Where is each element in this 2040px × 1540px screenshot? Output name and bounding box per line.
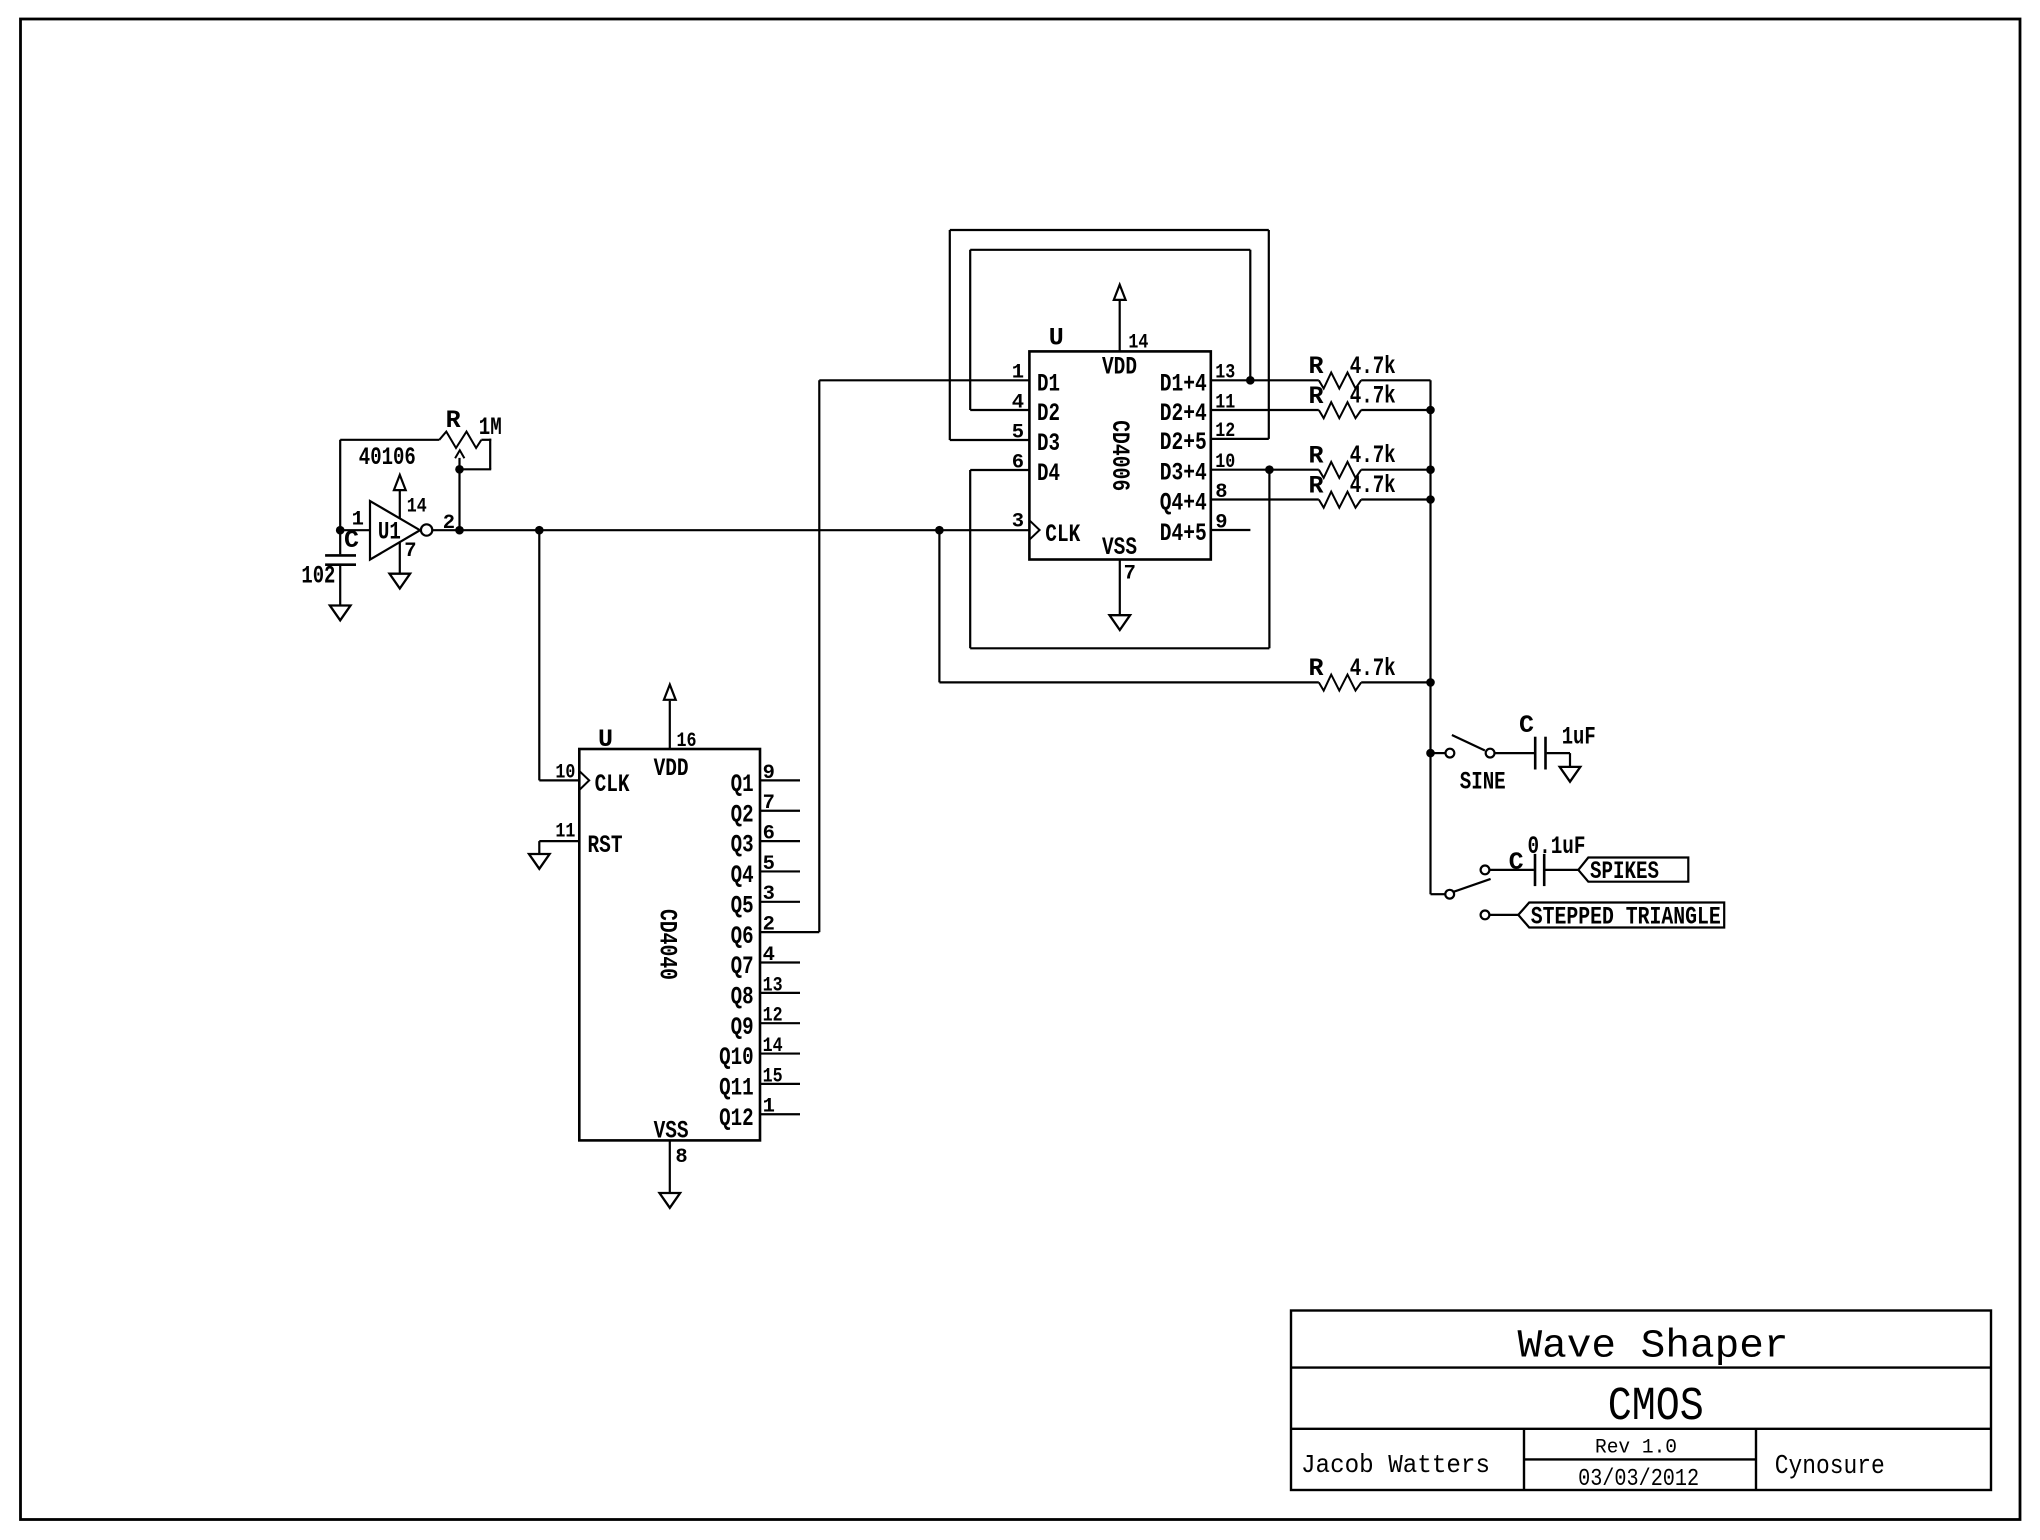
svg-text:8: 8 [675, 1146, 687, 1169]
CD4006 CLK wedge [1029, 520, 1039, 539]
ground at VSS of CD4006 [1110, 615, 1131, 630]
capacitor C 102 bottom lead [339, 566, 341, 606]
svg-text:Wave Shaper: Wave Shaper [1518, 1323, 1789, 1368]
svg-text:Jacob Watters: Jacob Watters [1301, 1450, 1490, 1480]
ground below cap 1uF [1560, 767, 1581, 782]
resistor R 4.7k body [1319, 492, 1361, 508]
ground at VSS of CD4040 [660, 1193, 681, 1208]
wire pin1 stub into U1 [340, 529, 370, 531]
resistor R 4.7k body [1319, 373, 1361, 389]
svg-text:03/03/2012: 03/03/2012 [1578, 1466, 1699, 1493]
svg-text:3: 3 [763, 883, 775, 906]
wire row left segment [1211, 409, 1319, 411]
wire SINE switch to cap C 1uF [1495, 752, 1535, 754]
svg-text:2: 2 [763, 914, 775, 937]
svg-text:Q3: Q3 [731, 831, 754, 860]
svg-text:R: R [1309, 442, 1324, 471]
wire cap 0.1uF to SPIKES flag [1545, 869, 1578, 871]
svg-text:4.7k: 4.7k [1350, 654, 1396, 683]
switch output upper contact circle [1481, 866, 1490, 875]
svg-text:CD4040: CD4040 [653, 909, 682, 980]
wire bottom resistor row left segment [939, 681, 1318, 683]
svg-text:D3: D3 [1037, 429, 1060, 458]
svg-text:D2+5: D2+5 [1160, 428, 1207, 457]
resistor R 4.7k body [1319, 462, 1361, 478]
svg-text:U: U [1049, 324, 1064, 353]
svg-text:SPIKES: SPIKES [1590, 857, 1659, 886]
wire feedback top horizontal [340, 439, 439, 441]
wire Q2 pin stub [760, 810, 800, 812]
wire Q6 pin stub [760, 931, 819, 933]
svg-text:14: 14 [763, 1035, 783, 1058]
wire Q10 pin stub [760, 1052, 800, 1054]
svg-text:R: R [1309, 352, 1324, 381]
svg-text:C: C [344, 526, 359, 555]
svg-text:102: 102 [301, 562, 335, 591]
power arrow VDD pin16 of CD4040 [669, 701, 671, 749]
wire pot lower return to wiper [460, 468, 492, 470]
title block rev date divider [1524, 1458, 1756, 1460]
svg-text:10: 10 [555, 761, 575, 784]
svg-text:Q11: Q11 [719, 1074, 754, 1103]
node junction dot inner loop at D1+4 [1246, 376, 1255, 385]
capacitor C 1uF plates [1534, 737, 1537, 770]
op-amp U1 inverter triangle [370, 501, 420, 560]
ground pin7 of U1 [399, 542, 401, 574]
wire row right segment to rail [1361, 379, 1430, 381]
wire RST stub [539, 840, 579, 842]
net flag STEPPED TRIANGLE outline [1518, 903, 1724, 928]
wire Q4 pin stub [760, 870, 800, 872]
svg-text:Q1: Q1 [731, 770, 754, 799]
power arrow VDD pin14 of U1 [399, 490, 401, 519]
switch output pivot contact circle [1445, 890, 1454, 899]
svg-text:1uF: 1uF [1562, 722, 1596, 751]
svg-text:D2+4: D2+4 [1160, 399, 1207, 428]
wire D3 stub [950, 439, 1030, 441]
wire clock branch vertical down to CD4040 CLK [538, 530, 540, 780]
wire bottom row right segment to rail [1361, 681, 1430, 683]
wire D2+5 row stub to outer loop [1211, 438, 1269, 440]
wire Q9 pin stub [760, 1022, 800, 1024]
wire row right segment to rail [1361, 498, 1430, 500]
svg-text:CLK: CLK [1045, 520, 1080, 549]
wire Q12 pin stub [760, 1113, 800, 1115]
resistor R 1M body [439, 432, 481, 448]
svg-text:Q5: Q5 [731, 891, 754, 920]
wire Q3 pin stub [760, 840, 800, 842]
wire rail bottom corner to output switch pivot [1431, 893, 1446, 895]
svg-text:7: 7 [763, 792, 775, 815]
title block outer box [1291, 1311, 1991, 1491]
svg-text:C: C [1519, 711, 1534, 740]
svg-text:1: 1 [1012, 362, 1024, 385]
svg-text:7: 7 [1124, 563, 1136, 586]
switch output lower contact circle [1481, 911, 1490, 920]
title block vertical divider left [1523, 1429, 1525, 1490]
wire lower contact to STEPPED TRIANGLE flag [1490, 914, 1519, 916]
wire Q1 pin stub [760, 779, 800, 781]
wire row left segment [1211, 379, 1319, 381]
wire outer loop left vertical D3 to top [949, 230, 951, 440]
switch output blade [1454, 879, 1490, 892]
svg-text:VSS: VSS [1102, 533, 1137, 562]
svg-text:Q4: Q4 [731, 861, 754, 890]
wire main clock horizontal from U1 output to CD4006 CLK [432, 529, 1029, 531]
svg-text:14: 14 [1128, 332, 1148, 355]
wire Q7 pin stub [760, 961, 800, 963]
U1 output bubble [421, 524, 432, 535]
wire RST down to ground [538, 841, 540, 854]
svg-text:Q7: Q7 [731, 952, 754, 981]
svg-text:R: R [1309, 471, 1324, 500]
capacitor C 0.1uF plates [1534, 854, 1537, 886]
svg-text:0.1uF: 0.1uF [1528, 832, 1586, 861]
capacitor C 102 plates [325, 554, 356, 557]
svg-text:5: 5 [1012, 421, 1024, 444]
svg-text:4: 4 [1012, 391, 1024, 414]
wire row left segment [1211, 498, 1319, 500]
svg-text:6: 6 [763, 823, 775, 846]
node junction dot SINE tap [1426, 749, 1435, 758]
svg-text:40106: 40106 [359, 443, 416, 472]
node junction dot rail row4 [1426, 465, 1435, 474]
title block divider under subtitle [1291, 1428, 1991, 1430]
wire outer loop right vertical to D2+5 row [1268, 230, 1270, 439]
svg-text:6: 6 [1012, 451, 1024, 474]
svg-text:U1: U1 [378, 518, 401, 547]
node junction dot D4 loop at D3+4 [1265, 465, 1274, 474]
wire D4 stub [970, 469, 1029, 471]
svg-text:11: 11 [555, 821, 575, 844]
node junction dot to CD4040 clock branch [535, 526, 544, 535]
wire inner loop top horizontal [970, 249, 1250, 251]
wire row right segment to rail [1361, 409, 1430, 411]
svg-text:VDD: VDD [1102, 353, 1137, 382]
svg-text:3: 3 [1012, 511, 1024, 534]
wire D4 loop right vertical up to D3+4 row [1268, 470, 1270, 649]
node junction dot rail row2 [1426, 406, 1435, 415]
resistor R 4.7k bottom body [1319, 675, 1361, 691]
svg-text:U: U [598, 725, 613, 754]
wire D4 loop left vertical down [969, 470, 971, 648]
svg-text:D2: D2 [1037, 399, 1060, 428]
svg-text:D1: D1 [1037, 369, 1060, 398]
svg-text:D3+4: D3+4 [1160, 459, 1207, 488]
capacitor C 102 top lead [339, 530, 341, 554]
svg-text:Rev 1.0: Rev 1.0 [1595, 1437, 1677, 1460]
node output junction dot at wiper column [455, 526, 464, 535]
svg-text:RST: RST [588, 831, 623, 860]
title block divider under title [1291, 1366, 1991, 1368]
wire D2 stub [970, 409, 1029, 411]
wire rail to SINE switch pivot [1431, 752, 1446, 754]
wire D4+5 pin9 stub [1211, 529, 1251, 531]
wire wiper down to output node [458, 469, 460, 530]
svg-text:4.7k: 4.7k [1350, 352, 1396, 381]
svg-text:CD4006: CD4006 [1105, 420, 1134, 491]
wire upper contact to cap C 0.1uF [1490, 869, 1534, 871]
svg-text:CLK: CLK [595, 770, 630, 799]
svg-text:12: 12 [763, 1005, 783, 1028]
svg-text:15: 15 [763, 1065, 783, 1088]
svg-text:C: C [1509, 848, 1524, 877]
svg-text:1M: 1M [479, 413, 502, 442]
svg-text:D4+5: D4+5 [1160, 519, 1207, 548]
power arrow VDD pin14 of CD4006 [1119, 300, 1121, 352]
svg-text:Q9: Q9 [731, 1013, 754, 1042]
ground below cap 102 [330, 606, 351, 621]
wire summing rail vertical [1429, 380, 1431, 894]
wire row right segment to rail [1361, 469, 1430, 471]
svg-text:9: 9 [763, 762, 775, 785]
IC U CD4006 box [1029, 351, 1210, 559]
svg-text:5: 5 [763, 853, 775, 876]
svg-text:Q4+4: Q4+4 [1160, 489, 1207, 518]
node junction dot rail row5 [1426, 495, 1435, 504]
wire VSS pin8 down [669, 1140, 671, 1193]
wire cap 1uF to ground corner [1547, 752, 1570, 754]
svg-text:Q6: Q6 [731, 922, 754, 951]
svg-text:Cynosure: Cynosure [1775, 1452, 1885, 1482]
switch SINE blade [1452, 735, 1485, 751]
net flag SPIKES outline [1578, 858, 1688, 882]
wire row left segment [1211, 469, 1319, 471]
svg-text:SINE: SINE [1460, 767, 1506, 796]
resistor R 4.7k body [1319, 402, 1361, 418]
svg-text:R: R [1309, 654, 1324, 683]
svg-text:Q8: Q8 [731, 982, 754, 1011]
node junction dot rail bottom row [1426, 678, 1435, 687]
pot wiper arrow [458, 458, 460, 469]
svg-text:4.7k: 4.7k [1350, 382, 1396, 411]
svg-text:Q10: Q10 [719, 1043, 754, 1072]
svg-text:4: 4 [763, 944, 775, 967]
svg-text:1: 1 [763, 1096, 775, 1119]
svg-text:STEPPED TRIANGLE: STEPPED TRIANGLE [1531, 902, 1721, 931]
svg-text:R: R [1309, 382, 1324, 411]
switch SINE right contact circle [1486, 749, 1495, 758]
node junction dot to bottom resistor branch [935, 526, 944, 535]
title block vertical divider right [1755, 1429, 1757, 1490]
svg-text:VDD: VDD [654, 754, 689, 783]
wire VSS pin7 down [1119, 560, 1121, 616]
svg-text:14: 14 [407, 495, 427, 518]
svg-text:2: 2 [443, 512, 455, 535]
wire Q11 pin stub [760, 1083, 800, 1085]
wire feedback left vertical pin1 node [339, 440, 341, 530]
svg-text:Q2: Q2 [731, 800, 754, 829]
svg-text:16: 16 [677, 730, 697, 753]
wire outer loop top horizontal [950, 229, 1269, 231]
svg-text:4.7k: 4.7k [1350, 441, 1396, 470]
svg-text:D4: D4 [1037, 459, 1060, 488]
svg-text:4.7k: 4.7k [1350, 471, 1396, 500]
svg-text:R: R [446, 406, 461, 435]
wire CLK stub into CD4040 [539, 779, 579, 781]
svg-text:CMOS: CMOS [1608, 1381, 1704, 1434]
wire R right end to corner [481, 439, 491, 441]
svg-text:13: 13 [763, 974, 783, 997]
CD4040 CLK wedge [579, 771, 589, 790]
node pin1 junction dot [336, 526, 345, 535]
svg-text:D1+4: D1+4 [1160, 369, 1207, 398]
IC U CD4040 box [579, 749, 760, 1140]
wire Q8 pin stub [760, 992, 800, 994]
wire Q5 pin stub [760, 901, 800, 903]
wire Q6 vertical up to CD4006 D1 [818, 380, 820, 932]
svg-text:7: 7 [404, 540, 416, 563]
wire D4 loop bottom horizontal [970, 647, 1269, 649]
node wiper junction dot [455, 465, 464, 474]
wire inner loop right vertical to D1+4 row [1249, 250, 1251, 380]
svg-text:VSS: VSS [654, 1117, 689, 1146]
ground at RST pin 11 [529, 854, 550, 869]
wire inner loop left vertical D2 to top [969, 250, 971, 410]
switch SINE pivot contact circle [1446, 749, 1455, 758]
wire D1 input from Q6 column [819, 379, 1029, 381]
svg-text:Q12: Q12 [719, 1104, 754, 1133]
wire clock branch vertical down to bottom resistor [938, 530, 940, 682]
